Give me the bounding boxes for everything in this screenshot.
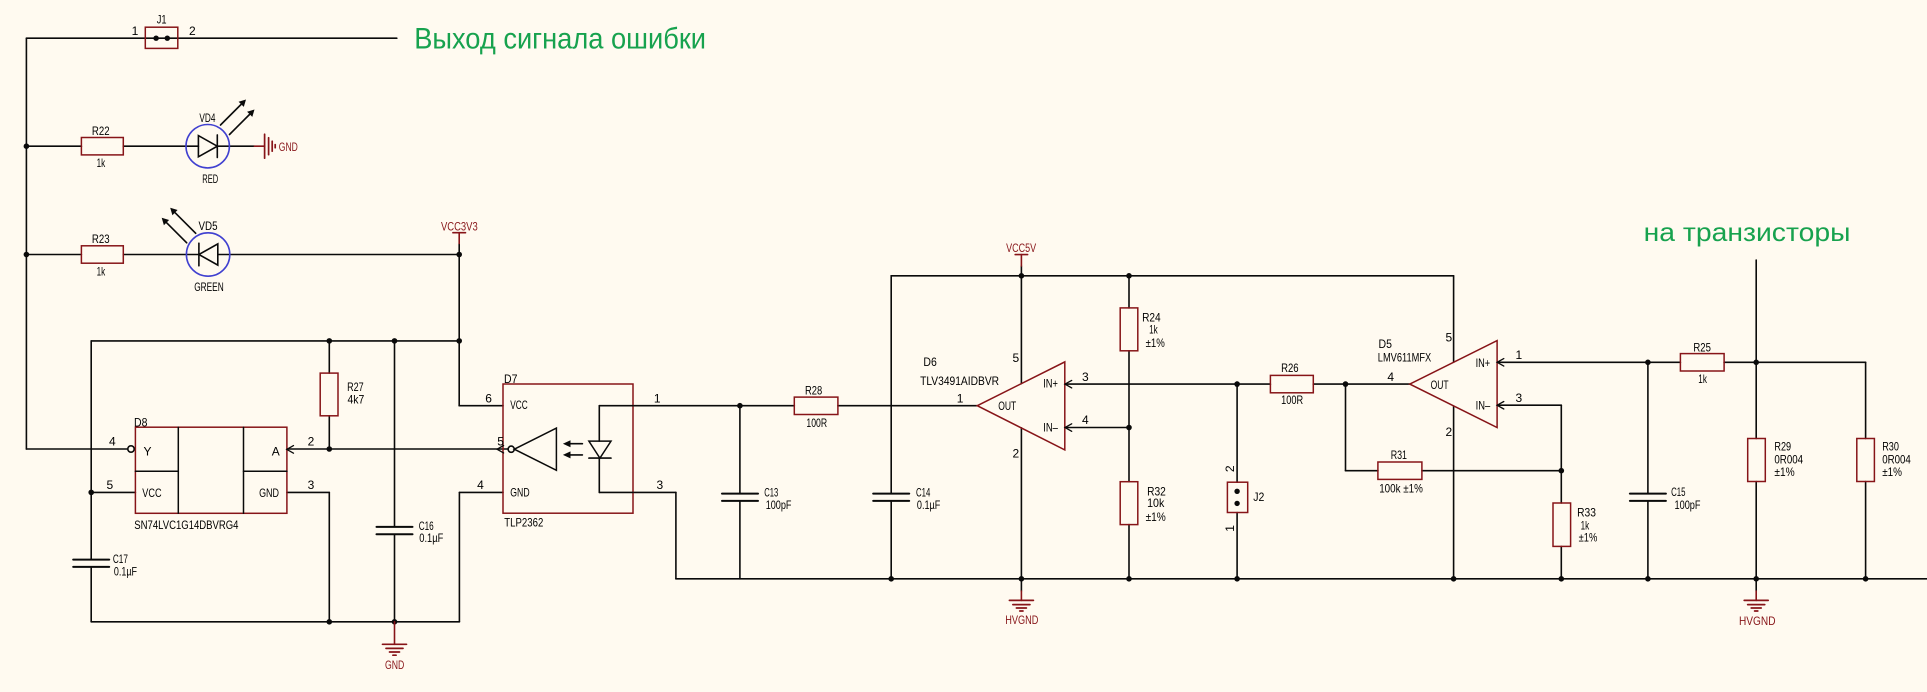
resistor R24 xyxy=(1120,308,1138,351)
power VCC5V xyxy=(1015,255,1027,266)
wire D5 feedback down xyxy=(1345,384,1347,471)
svg-text:GREEN: GREEN xyxy=(194,280,224,294)
ground GND sideways at VD4 xyxy=(254,134,275,158)
junction node 11 xyxy=(737,403,743,409)
wire HVGND bottom rail xyxy=(676,578,1927,580)
wire VCC3V3 down segment xyxy=(458,244,460,341)
wire bus to D8 pin 4 xyxy=(26,448,127,450)
junction node 27 xyxy=(1645,360,1651,366)
svg-text:1: 1 xyxy=(957,391,964,405)
junction node 1 xyxy=(24,143,30,149)
wire IN- node to R32 xyxy=(1128,428,1130,482)
svg-text:TLV3491AIDBVR: TLV3491AIDBVR xyxy=(920,374,999,388)
resistor R22 xyxy=(81,138,123,155)
svg-text:1: 1 xyxy=(1516,348,1523,362)
svg-text:Y: Y xyxy=(144,445,152,459)
svg-text:2: 2 xyxy=(1223,465,1237,472)
svg-text:0.1µF: 0.1µF xyxy=(114,565,137,579)
wire D8 pin 5 VCC xyxy=(91,491,135,493)
junction node 28 xyxy=(1753,360,1759,366)
comparator D6 body xyxy=(977,362,1071,450)
svg-text:100pF: 100pF xyxy=(766,498,792,512)
wire VCC rail drop to D5 pin 5 xyxy=(1453,276,1455,362)
wire C16 lower xyxy=(394,535,396,622)
junction node 5 xyxy=(327,338,333,344)
svg-text:R22: R22 xyxy=(92,124,110,138)
capacitor C14 xyxy=(873,494,909,501)
svg-text:100k ±1%: 100k ±1% xyxy=(1379,482,1423,496)
wire J1 to error-signal-output net xyxy=(26,37,396,39)
wire D7 pin 1 to R28 xyxy=(633,405,794,407)
wire D5 pin 2 xyxy=(1453,406,1455,579)
svg-text:RED: RED xyxy=(202,172,218,186)
junction node 13 xyxy=(1019,576,1025,582)
resistor R25 xyxy=(1680,354,1724,371)
junction node 14 xyxy=(1126,576,1132,582)
wire R22 to VD4 xyxy=(123,145,198,147)
junction node 12 xyxy=(888,576,894,582)
junction node 17 xyxy=(1559,576,1565,582)
svg-text:±1%: ±1% xyxy=(1774,465,1795,479)
svg-text:6: 6 xyxy=(485,391,492,405)
ground GND at C16 xyxy=(383,622,407,655)
capacitor C15 xyxy=(1630,494,1666,501)
wire left loop vertical upper xyxy=(90,341,92,559)
wire node to R33 xyxy=(1560,471,1562,503)
wire node to R22 xyxy=(26,145,81,147)
svg-text:HVGND: HVGND xyxy=(1005,613,1038,627)
junction node 4 xyxy=(456,338,462,344)
wire VCC5V stem lower xyxy=(1020,266,1022,276)
svg-text:3: 3 xyxy=(1082,370,1089,384)
svg-text:OUT: OUT xyxy=(1431,378,1449,392)
resistor R30 xyxy=(1857,439,1875,482)
wire C13 upper xyxy=(739,406,741,494)
wire D7 pin 4 stub xyxy=(459,491,503,493)
svg-text:J1: J1 xyxy=(157,12,167,26)
junction node 6 xyxy=(392,338,398,344)
wire R31 to IN- node xyxy=(1422,470,1561,472)
svg-text:2: 2 xyxy=(1013,447,1020,461)
resistor R29 xyxy=(1748,439,1766,482)
svg-text:VCC5V: VCC5V xyxy=(1006,241,1036,255)
svg-text:1: 1 xyxy=(132,24,139,38)
wire R25 to R30 corner xyxy=(1724,361,1866,363)
optocoupler D7 body xyxy=(497,384,633,513)
junction node 15 xyxy=(1234,576,1240,582)
svg-text:5: 5 xyxy=(497,435,504,449)
svg-text:10k: 10k xyxy=(1147,496,1165,510)
wire D5 IN+ to R25 xyxy=(1497,361,1680,363)
wire D5 IN- down to node xyxy=(1560,405,1562,471)
wire D8 pin 3 stub xyxy=(287,491,329,493)
resistor R33 xyxy=(1553,503,1571,546)
svg-text:VCC: VCC xyxy=(142,486,162,500)
wire VD4 to GND pin xyxy=(217,145,254,147)
wire R24 top xyxy=(1128,276,1130,308)
svg-text:2: 2 xyxy=(189,24,196,38)
wire VCC3V3 node down to D7 VCC level xyxy=(458,341,460,406)
wire R24 bottom to IN- node xyxy=(1128,351,1130,428)
wire feedback to R31 xyxy=(1346,470,1378,472)
junction node 23 xyxy=(1126,425,1132,431)
connector J1 xyxy=(145,27,178,48)
junction node 2 xyxy=(24,252,30,258)
svg-text:GND: GND xyxy=(510,486,530,500)
svg-text:OUT: OUT xyxy=(998,399,1016,413)
svg-text:R25: R25 xyxy=(1693,340,1711,354)
svg-text:0.1µF: 0.1µF xyxy=(917,498,940,512)
svg-text:1k: 1k xyxy=(1698,372,1707,386)
connector J2 xyxy=(1227,482,1247,512)
wire to D7 pin 6 xyxy=(459,405,503,407)
wire C15 upper xyxy=(1647,362,1649,493)
wire left vertical bus xyxy=(25,38,27,449)
junction node 26 xyxy=(1559,468,1565,474)
svg-text:D5: D5 xyxy=(1379,337,1393,351)
wire left loop vertical lower xyxy=(90,567,92,622)
wire top rail of 3V3 section xyxy=(91,340,459,342)
svg-text:SN74LVC1G14DBVRG4: SN74LVC1G14DBVRG4 xyxy=(134,518,238,532)
wire VD5 to VCC3V3 node xyxy=(218,254,459,256)
ground HVGND at D6 xyxy=(1009,591,1033,611)
svg-text:IN–: IN– xyxy=(1476,399,1491,413)
wire VCC5V rail left drop upper xyxy=(890,276,892,493)
svg-text:1k: 1k xyxy=(97,264,106,278)
svg-text:100R: 100R xyxy=(806,416,827,430)
wire R33 bottom xyxy=(1560,546,1562,578)
wire C15 lower xyxy=(1647,501,1649,579)
ground HVGND right xyxy=(1744,591,1768,611)
svg-text:0.1µF: 0.1µF xyxy=(419,531,443,545)
wire D8 pin 2 to D7 pin 5 xyxy=(287,448,508,450)
wire J2 upper xyxy=(1236,384,1238,482)
capacitor C16 xyxy=(377,527,413,534)
wire R29 top xyxy=(1755,362,1757,438)
wire D6 pin 2 xyxy=(1020,428,1022,591)
svg-text:R30: R30 xyxy=(1882,440,1899,454)
svg-text:±1%: ±1% xyxy=(1579,531,1598,545)
svg-text:5: 5 xyxy=(1013,351,1020,365)
svg-text:R31: R31 xyxy=(1391,448,1408,462)
svg-text:TLP2362: TLP2362 xyxy=(504,516,543,530)
junction node 8 xyxy=(88,490,94,496)
resistor R23 xyxy=(81,246,123,263)
junction node 19 xyxy=(1753,576,1759,582)
power VCC3V3 xyxy=(453,233,466,244)
capacitor C13 xyxy=(722,494,758,501)
svg-text:R28: R28 xyxy=(805,384,822,398)
svg-text:C15: C15 xyxy=(1671,485,1686,499)
wire R27 bottom xyxy=(328,416,330,449)
wire R27 top xyxy=(328,341,330,373)
wire D7 pin 3 down xyxy=(675,492,677,578)
wire D6 pin 5 xyxy=(1020,276,1022,384)
wire R28 to D6 OUT xyxy=(838,405,977,407)
svg-text:R33: R33 xyxy=(1577,505,1596,519)
wire D7 pin 4 down xyxy=(458,492,460,621)
wire C13 lower xyxy=(739,501,741,579)
svg-text:GND: GND xyxy=(385,658,405,672)
svg-text:VCC: VCC xyxy=(510,398,528,412)
junction node 10 xyxy=(392,619,398,625)
svg-text:4: 4 xyxy=(109,435,116,449)
svg-text:Выход сигнала ошибки: Выход сигнала ошибки xyxy=(414,22,706,55)
svg-text:100pF: 100pF xyxy=(1675,498,1701,512)
junction node 21 xyxy=(1019,273,1025,279)
resistor R27 xyxy=(320,373,338,416)
svg-text:3: 3 xyxy=(1516,391,1523,405)
svg-text:100R: 100R xyxy=(1281,393,1303,407)
wire D6 IN+ to R26 xyxy=(1065,383,1271,385)
svg-text:3: 3 xyxy=(308,478,315,492)
resistor R26 xyxy=(1270,375,1313,392)
resistor R32 xyxy=(1120,482,1138,525)
svg-text:IN+: IN+ xyxy=(1476,356,1491,370)
wire VCC5V rail xyxy=(891,275,1453,277)
LED VD4 xyxy=(186,100,255,168)
svg-text:HVGND: HVGND xyxy=(1739,614,1776,628)
svg-text:A: A xyxy=(272,445,280,459)
svg-text:GND: GND xyxy=(259,486,279,500)
svg-text:1: 1 xyxy=(1223,525,1237,532)
wire D6 IN- stub xyxy=(1065,427,1129,429)
svg-text:5: 5 xyxy=(1446,331,1453,345)
op-amp D5 body xyxy=(1410,341,1504,428)
wire R32 bottom xyxy=(1128,525,1130,579)
svg-text:4k7: 4k7 xyxy=(348,393,365,407)
junction node 18 xyxy=(1645,576,1651,582)
wire C16 upper xyxy=(394,341,396,527)
wire R26 to D5 OUT xyxy=(1313,383,1410,385)
svg-text:±1%: ±1% xyxy=(1146,336,1165,350)
wire GND bottom rail left xyxy=(91,621,459,623)
svg-text:LMV611MFX: LMV611MFX xyxy=(1378,350,1431,364)
wire node to R23 xyxy=(26,254,81,256)
svg-text:1: 1 xyxy=(654,391,661,405)
svg-text:1k: 1k xyxy=(97,156,106,170)
svg-text:GND: GND xyxy=(279,140,298,154)
junction node 25 xyxy=(1343,381,1349,387)
svg-text:D6: D6 xyxy=(923,355,937,369)
svg-text:R23: R23 xyxy=(92,232,110,246)
wire R30 bottom xyxy=(1865,482,1867,579)
junction node 9 xyxy=(327,619,333,625)
svg-text:4: 4 xyxy=(1387,370,1394,384)
wire C14 lower xyxy=(890,501,892,579)
junction node 3 xyxy=(456,252,462,258)
capacitor C17 xyxy=(73,560,109,567)
svg-text:D8: D8 xyxy=(134,416,148,430)
IC D8 body xyxy=(128,427,294,513)
junction node 20 xyxy=(1863,576,1869,582)
wire D8 pin 3 down xyxy=(328,492,330,621)
svg-text:2: 2 xyxy=(308,435,315,449)
junction node 16 xyxy=(1451,576,1457,582)
svg-text:5: 5 xyxy=(107,478,114,492)
svg-text:±1%: ±1% xyxy=(1146,510,1166,524)
svg-text:1k: 1k xyxy=(1149,323,1158,337)
svg-text:4: 4 xyxy=(1082,413,1089,427)
resistor R28 xyxy=(794,397,838,414)
svg-text:R29: R29 xyxy=(1774,440,1791,454)
svg-text:VD5: VD5 xyxy=(199,219,218,233)
wire D5 IN- stub xyxy=(1497,404,1561,406)
wire HVGND right stem xyxy=(1755,579,1757,591)
svg-text:на транзисторы: на транзисторы xyxy=(1644,217,1851,247)
svg-text:±1%: ±1% xyxy=(1882,465,1902,479)
junction node 7 xyxy=(327,446,333,452)
svg-text:4: 4 xyxy=(477,478,484,492)
LED VD5 xyxy=(162,208,230,276)
resistor R31 xyxy=(1378,462,1422,479)
svg-text:D7: D7 xyxy=(504,372,518,386)
wire to transistors vertical xyxy=(1755,260,1757,362)
svg-text:2: 2 xyxy=(1446,425,1453,439)
wire R30 top xyxy=(1865,362,1867,438)
svg-text:IN+: IN+ xyxy=(1043,377,1058,391)
svg-text:J2: J2 xyxy=(1253,490,1264,504)
svg-text:VCC3V3: VCC3V3 xyxy=(441,220,478,234)
wire D7 pin 3 stub xyxy=(633,491,676,493)
junction node 22 xyxy=(1126,273,1132,279)
svg-text:3: 3 xyxy=(657,478,664,492)
wire J2 lower xyxy=(1236,513,1238,579)
junction node 24 xyxy=(1234,381,1240,387)
wire R29 bottom xyxy=(1755,482,1757,579)
svg-text:VD4: VD4 xyxy=(199,111,215,125)
svg-text:R26: R26 xyxy=(1281,361,1299,375)
wire R23 to VD5 xyxy=(123,254,199,256)
svg-text:IN–: IN– xyxy=(1043,420,1058,434)
